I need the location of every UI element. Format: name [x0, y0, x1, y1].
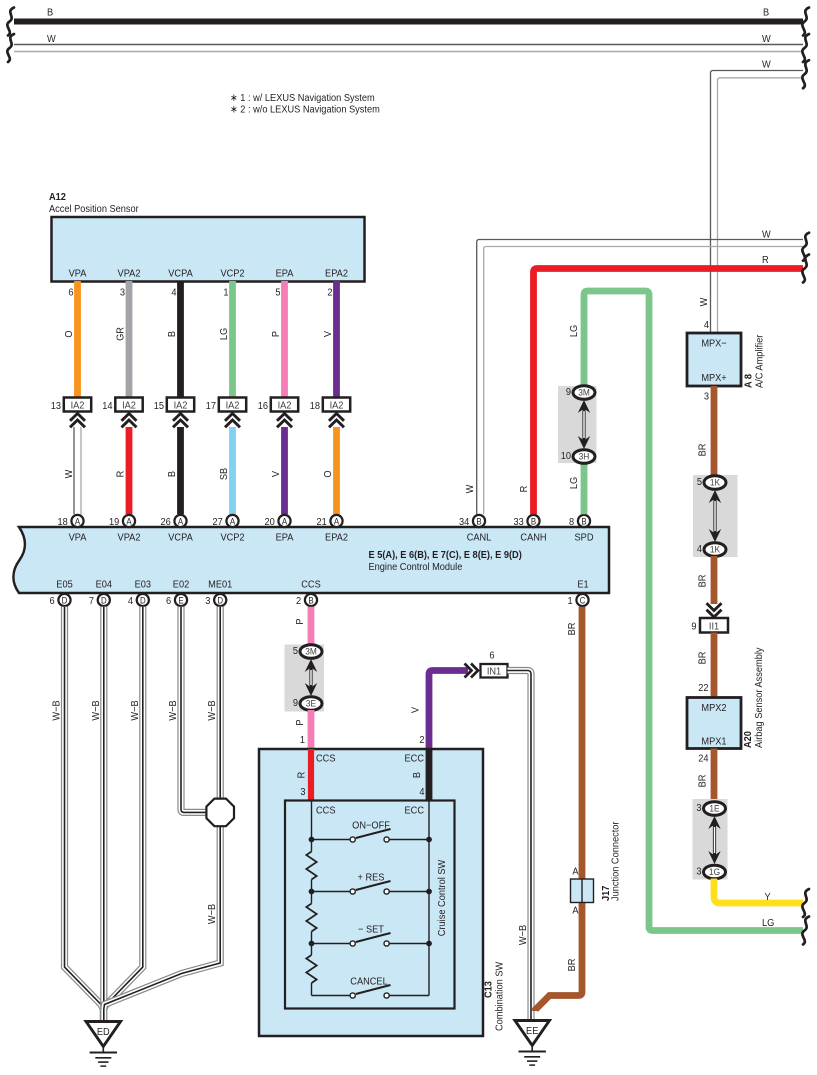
svg-text:6: 6: [68, 287, 74, 299]
svg-text:16: 16: [258, 401, 269, 413]
svg-text:18: 18: [310, 401, 321, 413]
svg-text:5: 5: [275, 287, 281, 299]
svg-text:CANCEL: CANCEL: [350, 976, 388, 988]
svg-text:W−B: W−B: [518, 924, 530, 945]
ground EE: [515, 1021, 550, 1066]
svg-text:R: R: [296, 772, 308, 779]
svg-text:E1: E1: [577, 579, 589, 591]
svg-text:3M: 3M: [578, 387, 590, 398]
svg-text:ECC: ECC: [405, 805, 424, 817]
svg-text:VCPA: VCPA: [168, 268, 193, 280]
svg-text:EPA2: EPA2: [325, 532, 348, 544]
wire O from IA2 to ECM pin 21: [323, 427, 337, 514]
ECM pin 21 (A): [316, 515, 342, 528]
ground ED: [86, 1022, 121, 1067]
svg-text:1E: 1E: [709, 803, 719, 814]
ECM pin 27 (A): [212, 515, 238, 528]
wire R CANH from ECM pin 33: [519, 255, 809, 515]
svg-text:18: 18: [57, 517, 68, 529]
svg-text:II1: II1: [709, 621, 720, 633]
svg-text:W−B: W−B: [207, 903, 219, 924]
junction connector 3M/3H: [558, 386, 597, 464]
resistor between -SET and CANCEL: [306, 955, 316, 983]
svg-text:R: R: [115, 471, 127, 478]
wire R from IA2 to ECM pin 19: [115, 427, 129, 514]
svg-text:E04: E04: [96, 579, 113, 591]
svg-text:Airbag Sensor Assembly: Airbag Sensor Assembly: [754, 647, 766, 748]
svg-text:B: B: [308, 595, 314, 606]
svg-text:A 8: A 8: [743, 374, 755, 388]
svg-text:GR: GR: [115, 327, 127, 341]
combination SW C13: [259, 749, 506, 1036]
svg-text:W−B: W−B: [207, 700, 219, 721]
ECM pin 26 (A): [160, 515, 186, 528]
svg-text:E: E: [178, 595, 184, 606]
ECM pin 8 (B): [569, 515, 590, 528]
svg-text:VPA2: VPA2: [118, 532, 141, 544]
junction connector 3M/3E: [285, 645, 325, 712]
resistor between +RES and -SET: [306, 904, 316, 932]
wire BR from ECM pin E1: [536, 607, 583, 1011]
svg-text:1: 1: [568, 596, 574, 608]
switch &#8722; SET: [309, 924, 432, 946]
svg-text:BR: BR: [697, 575, 709, 588]
svg-text:Engine Control Module: Engine Control Module: [369, 562, 463, 574]
svg-text:B: B: [412, 772, 424, 779]
svg-text:E05: E05: [56, 579, 73, 591]
svg-text:4: 4: [171, 287, 177, 299]
svg-text:IA2: IA2: [330, 400, 344, 412]
svg-text:4: 4: [128, 596, 134, 608]
svg-text:O: O: [323, 470, 335, 477]
wire bus B (battery): [7, 7, 809, 35]
svg-text:SB: SB: [219, 467, 231, 480]
svg-text:VCP2: VCP2: [220, 268, 244, 280]
svg-text:1K: 1K: [710, 544, 720, 555]
svg-text:8: 8: [569, 517, 575, 529]
wire W-B from ECM E04 to ground ED: [90, 607, 103, 1021]
ECM pin 20 (A): [264, 515, 290, 528]
wire W from IA2 to ECM pin 18: [64, 427, 81, 514]
svg-text:E03: E03: [135, 579, 152, 591]
svg-text:24: 24: [698, 753, 709, 765]
wire B ECC inside C13: [405, 749, 429, 801]
svg-text:W−B: W−B: [129, 700, 141, 721]
svg-text:CANH: CANH: [520, 532, 546, 544]
A/C amplifier A8: [687, 333, 766, 388]
svg-text:IA2: IA2: [226, 400, 240, 412]
svg-text:C13: C13: [483, 981, 495, 998]
svg-text:2: 2: [419, 735, 424, 747]
svg-text:BR: BR: [567, 623, 579, 636]
svg-text:LG: LG: [569, 325, 581, 337]
svg-text:C: C: [580, 595, 586, 606]
svg-text:W: W: [64, 469, 76, 478]
wire BR from MPX1 pin 24: [697, 749, 714, 803]
wire BR to connector II1: [697, 556, 721, 617]
svg-text:6: 6: [166, 596, 172, 608]
wire W-B from ECM ME01 to ground ED: [104, 607, 220, 1009]
svg-text:3H: 3H: [579, 451, 590, 462]
svg-text:CANL: CANL: [467, 532, 492, 544]
svg-text:Junction Connector: Junction Connector: [610, 821, 622, 901]
wire O from A12 pin 6 to IA2: [64, 281, 78, 398]
connector IA2 pin 17: [206, 398, 246, 428]
svg-text:3: 3: [120, 287, 126, 299]
node CCS rail: [311, 801, 313, 996]
svg-text:13: 13: [51, 401, 62, 413]
wire W-B from ECM E05 to ground ED: [51, 607, 103, 1021]
cruise control SW inner box: [285, 801, 455, 1009]
svg-text:10: 10: [561, 451, 572, 463]
svg-text:B: B: [476, 516, 482, 527]
svg-text:B: B: [167, 471, 179, 478]
svg-text:R: R: [519, 486, 531, 493]
wire LG SPD from ECM pin 8: [569, 291, 809, 945]
junction connector 1K/1K: [693, 475, 738, 557]
wire P CCS from ECM pin 2: [295, 607, 311, 646]
note: navigation system variants: [230, 93, 380, 116]
svg-text:3: 3: [300, 787, 306, 799]
wire B from A12 pin 4 to IA2: [167, 281, 181, 398]
svg-text:A: A: [178, 516, 184, 527]
svg-text:A: A: [126, 516, 132, 527]
switch + RES: [309, 872, 432, 894]
svg-text:LG: LG: [219, 328, 231, 340]
svg-text:W: W: [47, 34, 56, 46]
wire Y from 1G: [714, 879, 809, 918]
ECM pin 34 (B): [459, 515, 485, 528]
svg-text:9: 9: [293, 698, 299, 710]
svg-text:A: A: [282, 516, 288, 527]
svg-text:17: 17: [206, 401, 216, 413]
svg-text:VPA2: VPA2: [118, 268, 141, 280]
svg-text:34: 34: [459, 517, 470, 529]
svg-text:D: D: [140, 595, 146, 606]
svg-text:V: V: [410, 707, 422, 714]
svg-text:20: 20: [264, 517, 275, 529]
svg-text:CCS: CCS: [301, 579, 321, 591]
svg-text:26: 26: [160, 517, 171, 529]
junction connector J17: [571, 821, 622, 917]
svg-text:A12: A12: [49, 192, 66, 204]
svg-text:W: W: [699, 297, 711, 306]
wire SB from IA2 to ECM pin 27: [219, 427, 233, 514]
wire BR from MPX+ pin 3: [697, 386, 714, 477]
svg-text:21: 21: [316, 517, 327, 529]
svg-text:V: V: [323, 331, 335, 338]
node ECC rail: [428, 801, 430, 996]
svg-text:VPA: VPA: [69, 532, 87, 544]
svg-text:CCS: CCS: [316, 805, 336, 817]
svg-text:3M: 3M: [305, 646, 317, 657]
wire V from IN1 to combination SW pin 2: [410, 664, 478, 750]
wire P from A12 pin 5 to IA2: [271, 281, 285, 398]
svg-text:ED: ED: [97, 1027, 110, 1039]
svg-text:A: A: [572, 905, 579, 917]
accel position sensor A12: [49, 192, 365, 282]
svg-text:VCPA: VCPA: [168, 532, 193, 544]
wire W to A/C amplifier MPX-: [699, 59, 809, 333]
svg-text:3: 3: [205, 596, 211, 608]
svg-text:LG: LG: [762, 918, 774, 930]
svg-text:VPA: VPA: [69, 268, 87, 280]
svg-text:27: 27: [212, 517, 222, 529]
svg-text:IA2: IA2: [278, 400, 292, 412]
svg-text:∗ 1 : w/ LEXUS Navigation Syst: ∗ 1 : w/ LEXUS Navigation System: [230, 93, 375, 105]
svg-text:B: B: [167, 331, 179, 338]
svg-text:Accel Position Sensor: Accel Position Sensor: [49, 204, 139, 216]
splice octagon: [206, 799, 234, 827]
svg-text:B: B: [531, 516, 537, 527]
junction connector 1E/1G: [693, 799, 728, 880]
svg-text:A: A: [334, 516, 340, 527]
wire BR from II1 to airbag sensor pin 22: [697, 633, 714, 698]
svg-text:ME01: ME01: [208, 579, 233, 591]
svg-text:W: W: [762, 229, 771, 241]
svg-text:∗ 2 : w/o LEXUS Navigation Sys: ∗ 2 : w/o LEXUS Navigation System: [230, 104, 380, 116]
connector IN1 pin 6: [481, 650, 508, 678]
connector II1 pin 9: [691, 618, 728, 633]
svg-text:1K: 1K: [710, 477, 720, 488]
svg-text:3: 3: [696, 866, 702, 878]
resistor between ON-OFF and +RES: [306, 852, 316, 880]
svg-text:MPX+: MPX+: [701, 373, 727, 385]
svg-text:B: B: [47, 7, 54, 19]
svg-text:15: 15: [154, 401, 165, 413]
svg-text:W−B: W−B: [168, 700, 180, 721]
svg-text:1: 1: [300, 735, 306, 747]
svg-text:1G: 1G: [709, 867, 720, 878]
svg-text:P: P: [271, 331, 283, 338]
wire GR from A12 pin 3 to IA2: [115, 281, 129, 398]
svg-text:ON−OFF: ON−OFF: [352, 820, 390, 832]
svg-text:W−B: W−B: [51, 700, 63, 721]
svg-text:IA2: IA2: [71, 400, 85, 412]
svg-text:W: W: [762, 59, 771, 71]
svg-text:P: P: [295, 719, 307, 726]
ECM bottom pin 6 (D): [50, 594, 71, 607]
svg-text:MPX1: MPX1: [701, 736, 727, 748]
ECM bottom pin 7 (D): [89, 594, 110, 607]
svg-text:Combination SW: Combination SW: [494, 961, 506, 1031]
ECM bottom pin 4 (D): [128, 594, 149, 607]
svg-text:2: 2: [327, 287, 332, 299]
connector IA2 pin 13: [51, 398, 91, 428]
wire R CCS inside C13: [296, 749, 336, 801]
svg-text:14: 14: [102, 401, 113, 413]
wire V from A12 pin 2 to IA2: [323, 281, 337, 398]
svg-text:D: D: [101, 595, 107, 606]
ECM bottom pin 2 (B): [296, 594, 317, 607]
switch ON&#8722;OFF: [309, 820, 432, 842]
svg-text:LG: LG: [569, 477, 581, 489]
svg-text:3: 3: [696, 803, 702, 815]
svg-text:W−B: W−B: [90, 700, 102, 721]
svg-text:6: 6: [489, 650, 495, 662]
svg-text:IN1: IN1: [487, 666, 502, 678]
svg-text:E 5(A), E 6(B), E 7(C), E 8(E): E 5(A), E 6(B), E 7(C), E 8(E), E 9(D): [369, 550, 522, 562]
svg-text:6: 6: [50, 596, 56, 608]
svg-text:ECC: ECC: [405, 753, 424, 765]
svg-text:4: 4: [704, 320, 710, 332]
svg-text:B: B: [763, 7, 770, 19]
connector IA2 pin 14: [102, 398, 142, 428]
ECM bottom pin 1 (C): [568, 594, 589, 607]
svg-text:EPA: EPA: [276, 532, 294, 544]
svg-text:1: 1: [223, 287, 229, 299]
svg-text:IA2: IA2: [174, 400, 188, 412]
svg-text:9: 9: [691, 621, 697, 633]
svg-text:2: 2: [296, 596, 301, 608]
svg-text:5: 5: [293, 646, 299, 658]
svg-text:4: 4: [419, 787, 425, 799]
wire W CANL from ECM pin 34: [465, 229, 809, 514]
ECM bottom pin 3 (D): [205, 594, 226, 607]
svg-text:7: 7: [89, 596, 94, 608]
wire B from IA2 to ECM pin 26: [167, 427, 181, 514]
svg-text:33: 33: [513, 517, 524, 529]
svg-text:V: V: [271, 471, 283, 478]
svg-text:D: D: [217, 595, 223, 606]
svg-text:9: 9: [566, 387, 572, 399]
wire P from 3E to combination SW pin 1: [295, 710, 311, 749]
svg-text:MPX2: MPX2: [701, 703, 726, 715]
svg-text:MPX−: MPX−: [701, 338, 727, 350]
wire W-B from splice to ground ED: [207, 903, 219, 924]
wire W-B from ECM E02 to ground ED: [168, 607, 207, 813]
connector IA2 pin 16: [258, 398, 298, 428]
svg-text:A: A: [572, 866, 579, 878]
connector IA2 pin 18: [310, 398, 350, 428]
svg-text:IA2: IA2: [122, 400, 136, 412]
svg-text:EPA: EPA: [276, 268, 294, 280]
svg-text:W: W: [465, 484, 477, 493]
svg-text:P: P: [295, 618, 307, 625]
svg-text:W: W: [762, 34, 771, 46]
ECM pin 19 (A): [109, 515, 135, 528]
svg-text:4: 4: [697, 544, 703, 556]
svg-text:BR: BR: [697, 775, 709, 788]
wire W-B from ECM E03 to ground ED: [104, 607, 143, 1009]
svg-text:19: 19: [109, 517, 120, 529]
svg-text:SPD: SPD: [575, 532, 594, 544]
svg-text:R: R: [762, 255, 769, 267]
svg-text:BR: BR: [697, 652, 709, 665]
wire V from IA2 to ECM pin 20: [271, 427, 285, 514]
wire LG from A12 pin 1 to IA2: [219, 281, 233, 398]
airbag sensor assembly A20: [687, 647, 765, 748]
svg-text:CCS: CCS: [316, 753, 336, 765]
ECM pin 33 (B): [513, 515, 539, 528]
svg-text:BR: BR: [697, 444, 709, 457]
wire W-B from IN1 to ground EE: [508, 671, 532, 1021]
svg-text:BR: BR: [567, 959, 579, 972]
svg-text:3E: 3E: [306, 698, 316, 709]
svg-text:− SET: − SET: [358, 924, 384, 936]
svg-text:VCP2: VCP2: [220, 532, 244, 544]
svg-text:E02: E02: [173, 579, 189, 591]
svg-text:+ RES: + RES: [358, 872, 385, 884]
svg-text:EPA2: EPA2: [325, 268, 348, 280]
wire bus W: [7, 34, 809, 62]
svg-text:O: O: [64, 330, 76, 337]
svg-text:EE: EE: [526, 1026, 539, 1038]
svg-text:5: 5: [697, 477, 703, 489]
svg-text:A/C Amplifier: A/C Amplifier: [754, 334, 766, 388]
svg-text:3: 3: [704, 391, 710, 403]
ECM pin 18 (A): [57, 515, 83, 528]
ECM bottom pin 6 (E): [166, 594, 187, 607]
switch CANCEL: [312, 976, 430, 998]
svg-text:A: A: [75, 516, 81, 527]
svg-text:A: A: [230, 516, 236, 527]
svg-text:Cruise Control SW: Cruise Control SW: [437, 859, 449, 936]
svg-text:Y: Y: [765, 892, 772, 904]
svg-text:A20: A20: [743, 731, 755, 748]
engine control module ECM E5-E9: [13, 527, 609, 593]
svg-text:D: D: [62, 595, 68, 606]
connector IA2 pin 15: [154, 398, 194, 428]
svg-text:22: 22: [698, 683, 708, 695]
svg-text:B: B: [581, 516, 587, 527]
